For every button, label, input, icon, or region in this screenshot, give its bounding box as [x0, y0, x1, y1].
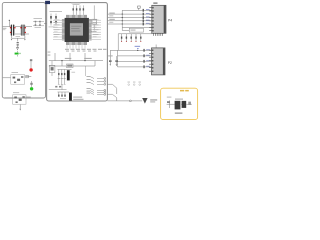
svg-text:P2: P2 [168, 61, 172, 65]
svg-text:P4: P4 [168, 18, 172, 22]
